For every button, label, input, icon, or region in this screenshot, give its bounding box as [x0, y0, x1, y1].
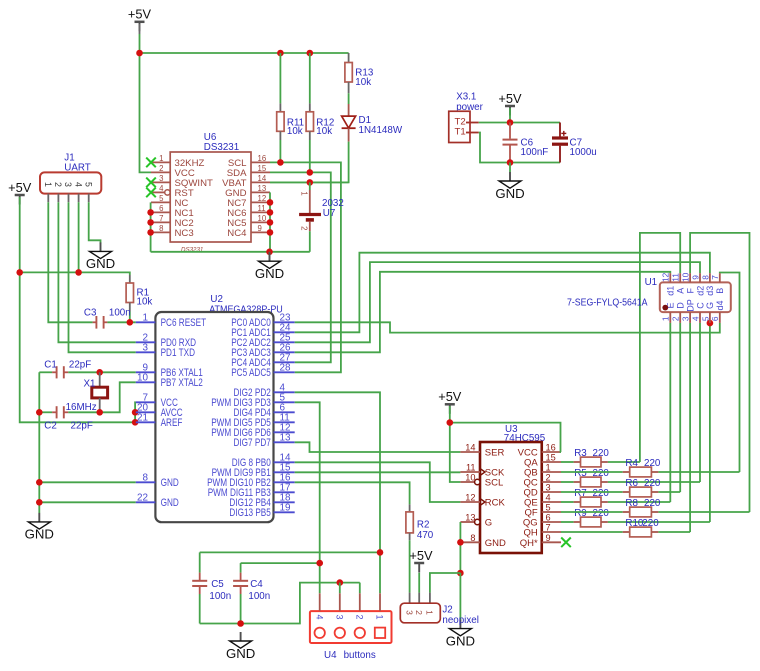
wire R2 to J2 pin3: [409, 540, 411, 592]
svg-text:3: 3: [143, 343, 149, 354]
junction X1 bottom: [96, 409, 103, 416]
svg-text:C1: C1: [44, 360, 57, 371]
svg-text:+5V: +5V: [128, 7, 152, 22]
resistor R9 220: [561, 521, 574, 523]
no-connect X pin4: [146, 188, 156, 198]
U2 pin 23 PC0 ADC0: [274, 321, 295, 323]
junction row A: [377, 549, 384, 556]
+5V supply symbol (top main rail): [128, 7, 152, 32]
wire PC2 to 7seg d2 (U1 pin9): [295, 262, 700, 342]
svg-text:220: 220: [593, 468, 610, 479]
crystal X1 16MHz: [99, 372, 101, 387]
U6 pin 16 SCL: [251, 161, 270, 163]
junction NC6: [267, 209, 274, 216]
wire U6 ground rail: [151, 251, 310, 253]
U6 pin 8 NC3: [151, 231, 170, 233]
wire R3 output: [608, 461, 640, 463]
resistor R6 220: [561, 491, 623, 493]
wire PB1 to 595 SCK: [295, 471, 461, 473]
U4 pin 4: [319, 593, 321, 611]
resistor R10 220: [561, 531, 623, 533]
U6 pin 1 32KHZ: [151, 161, 170, 163]
wire segment A: R3 to U1 pin11: [640, 233, 680, 462]
svg-text:1: 1: [546, 463, 551, 473]
U6 pin 15 SDA: [251, 171, 270, 173]
svg-text:10: 10: [137, 373, 148, 384]
U2 pin 14 DIG 8 PB0: [274, 461, 295, 463]
svg-text:1N4148W: 1N4148W: [359, 125, 403, 136]
wire segment F: R8 to U1 pin10: [690, 233, 749, 512]
U2 pin 2 PD0 RXD: [136, 341, 156, 343]
svg-text:d3: d3: [705, 286, 715, 296]
resistor R13 10k: [348, 53, 350, 63]
wire PD3 to buttons row B: [295, 402, 320, 593]
svg-text:5: 5: [546, 503, 551, 513]
svg-text:9: 9: [690, 275, 700, 280]
svg-text:11: 11: [258, 204, 266, 213]
junction NC2: [147, 219, 154, 226]
svg-text:3: 3: [546, 483, 551, 493]
wire R10 output: [658, 531, 690, 533]
wire R11 bottom to SCL: [279, 140, 281, 162]
junction +5V U3: [447, 419, 454, 426]
svg-text:PC5 ADC5: PC5 ADC5: [231, 367, 271, 379]
U1 pin1 marker: [662, 305, 668, 311]
connector U4 buttons: [310, 611, 392, 643]
U6 pin 13 GND: [251, 191, 270, 193]
svg-text:1: 1: [143, 313, 149, 324]
svg-text:C5: C5: [211, 579, 224, 590]
svg-text:X1: X1: [84, 378, 96, 389]
svg-text:220: 220: [644, 498, 661, 509]
U3 pin 3 QD: [542, 491, 561, 493]
wire R12 top: [309, 53, 311, 103]
+5V supply symbol (U3): [438, 389, 462, 414]
junction J1 pin4: [75, 269, 82, 276]
wire C3 to U2 pin1: [107, 321, 135, 323]
svg-text:R2: R2: [417, 519, 430, 530]
junction AVCC: [132, 409, 139, 416]
junction U1 pin5: [707, 320, 714, 327]
wire GND to U2 pin8: [39, 481, 136, 483]
+5V supply symbol (J1 area): [8, 180, 32, 205]
svg-text:GND: GND: [255, 266, 284, 281]
junction SDA/R12: [307, 169, 314, 176]
junction GND to J2: [457, 570, 464, 577]
U2 pin 9 PB6 XTAL1: [136, 371, 156, 373]
U6 pin 2 VCC: [151, 171, 170, 173]
U2 pin 27 PC4 ADC4: [274, 361, 295, 363]
svg-text:DP: DP: [685, 299, 695, 312]
svg-text:1: 1: [375, 614, 385, 619]
svg-text:28: 28: [280, 363, 291, 374]
svg-text:D: D: [676, 302, 686, 309]
U6 pin 6 NC1: [151, 211, 170, 213]
wire +5V to R1: [20, 272, 130, 275]
junction +5V left: [16, 269, 23, 276]
junction GND pin8: [36, 479, 43, 486]
wire R11 top: [279, 53, 281, 103]
wire 595 G to GND: [459, 522, 461, 573]
svg-text:PD1 TXD: PD1 TXD: [161, 347, 196, 359]
resistor R7 220: [561, 501, 574, 503]
U1 pin 8 d3: [709, 273, 711, 282]
svg-text:6: 6: [546, 513, 551, 523]
svg-text:14: 14: [258, 174, 267, 183]
wire R9 output: [608, 521, 710, 523]
capacitor C5 100n: [199, 552, 201, 572]
U2 pin 4 DIG2 PD2: [274, 391, 295, 393]
wire +5V stub: [139, 24, 141, 34]
U6 pin 5 NC: [151, 201, 170, 203]
+5V supply symbol (J2): [409, 548, 433, 573]
junction +5V rail at R11: [277, 50, 284, 57]
svg-text:U4: U4: [324, 650, 337, 661]
diode D1 1N4148W: [348, 104, 350, 116]
capacitor C1 22pF: [39, 371, 52, 373]
ground symbol (crystal area): [25, 513, 54, 542]
svg-text:15: 15: [546, 453, 556, 463]
U3 pin 5 QF: [542, 511, 561, 513]
svg-text:22pF: 22pF: [71, 420, 93, 431]
svg-text:3: 3: [404, 610, 414, 615]
svg-text:F: F: [685, 288, 695, 294]
svg-text:2: 2: [355, 614, 365, 619]
svg-text:100n: 100n: [109, 308, 131, 319]
svg-text:1: 1: [661, 316, 671, 321]
wire U6 GND/NC4-7 vertical: [269, 192, 271, 251]
U3 pin 16 VCC: [542, 451, 561, 453]
svg-text:1: 1: [299, 191, 308, 195]
svg-text:220: 220: [644, 458, 661, 469]
svg-text:470: 470: [417, 530, 434, 541]
svg-text:12: 12: [258, 194, 267, 203]
resistor R3 220: [561, 461, 574, 463]
no-connect X QH*: [561, 538, 571, 548]
svg-text:3: 3: [63, 182, 73, 187]
junction SCL/R11: [277, 159, 284, 166]
wire C1 to XTAL1: [68, 371, 136, 373]
wire C2/X1 to XTAL2: [68, 382, 136, 412]
svg-text:15: 15: [258, 164, 267, 173]
junction C4 bottom: [237, 620, 244, 627]
U2 pin 7 VCC: [136, 401, 156, 403]
svg-text:T1: T1: [455, 127, 466, 138]
svg-text:10k: 10k: [287, 126, 303, 137]
svg-text:+5V: +5V: [438, 389, 462, 404]
wire J1 pin4 to +5V: [78, 202, 80, 272]
wire +5V left vertical: [19, 197, 21, 272]
svg-text:R3: R3: [574, 448, 587, 459]
wire GND to J2 pin1: [430, 573, 461, 593]
wire R12 bottom to SDA: [309, 140, 311, 172]
connector J2 neopixel: [409, 593, 411, 604]
svg-text:R10: R10: [625, 518, 644, 529]
U1 pin 6 d4: [719, 312, 721, 323]
svg-text:+5V: +5V: [498, 91, 522, 106]
svg-text:neopixel: neopixel: [442, 615, 479, 626]
U1 pin 4 C: [699, 312, 701, 323]
wire J1 pin3 to U2 TXD: [69, 202, 136, 352]
svg-text:16MHz: 16MHz: [66, 402, 97, 413]
svg-text:7: 7: [546, 523, 551, 533]
svg-text:14: 14: [465, 443, 475, 453]
wire J1 pin2 to U2 RXD: [58, 202, 135, 342]
U3 pin 8 GND: [460, 541, 480, 543]
junction 595 GND pin: [457, 539, 464, 546]
wire SDA net to U2 pin 27: [270, 172, 331, 362]
svg-text:X3.1: X3.1: [456, 92, 476, 103]
junction C2/GND: [36, 409, 43, 416]
junction NC1: [147, 209, 154, 216]
svg-text:B: B: [715, 288, 725, 294]
junction RESET node: [127, 319, 134, 326]
U3 pin 1 QB: [542, 471, 561, 473]
U2 pin 28 PC5 ADC5: [274, 371, 295, 373]
U1 pin 3 DP: [689, 312, 691, 323]
U1 pin 12 d1: [669, 273, 671, 282]
svg-text:DIG7 PD7: DIG7 PD7: [234, 437, 271, 449]
junction +5V rail left: [136, 50, 143, 57]
svg-text:2: 2: [546, 473, 551, 483]
svg-text:G: G: [485, 518, 492, 529]
wire button row A (PD2/C5/U4 pin1): [200, 551, 380, 553]
resistor R5 220: [561, 481, 574, 483]
svg-text:13: 13: [258, 184, 267, 193]
wire PB0 to 595 RCK: [295, 462, 461, 502]
svg-text:220: 220: [593, 488, 610, 499]
U3 pin 10 SCL: [460, 481, 474, 483]
svg-text:10k: 10k: [137, 297, 153, 308]
junction NC7: [267, 199, 274, 206]
U4 pin 1: [379, 593, 381, 611]
wire R5 output: [608, 481, 700, 483]
wire segment DP: R10 to U1 pin3: [689, 323, 691, 532]
svg-text:d4: d4: [715, 300, 725, 310]
wire R8 output: [658, 511, 749, 513]
svg-text:GND: GND: [226, 646, 255, 661]
battery U7 2032: [309, 182, 311, 190]
U6 pin 12 NC7: [251, 201, 270, 203]
svg-text:220: 220: [642, 518, 659, 529]
svg-text:GND: GND: [161, 477, 179, 489]
junction +5V/C6 top: [507, 119, 514, 126]
svg-text:U7: U7: [323, 208, 336, 219]
junction VBAT/battery: [307, 179, 314, 186]
ground symbol (power section): [509, 163, 511, 173]
U3 pin 6 QG: [542, 521, 561, 523]
U2 pin 3 PD1 TXD: [136, 351, 156, 353]
svg-text:22pF: 22pF: [69, 360, 91, 371]
wire R1 bottom to RESET: [129, 312, 131, 323]
ground symbol (U6): [269, 252, 271, 261]
junction NC4: [267, 229, 274, 236]
resistor R8 220: [561, 511, 623, 513]
U3 pin 2 QC: [542, 481, 561, 483]
svg-text:PB7 XTAL2: PB7 XTAL2: [161, 377, 203, 389]
svg-text:7: 7: [710, 275, 720, 280]
svg-text:100nF: 100nF: [521, 147, 549, 158]
svg-text:QH*: QH*: [520, 538, 538, 549]
wire R7 output: [608, 501, 670, 503]
svg-text:6: 6: [710, 316, 720, 321]
ground symbol (J1): [86, 242, 115, 271]
U6 pin 7 NC2: [151, 221, 170, 223]
U2 pin 18 DIG12 PB4: [274, 501, 295, 503]
svg-text:GND: GND: [25, 527, 54, 542]
U3 pin 14 SER: [460, 451, 480, 453]
junction row B: [316, 560, 323, 567]
svg-text:d2: d2: [695, 286, 705, 296]
wire segment D: R6 to U1 pin2: [679, 323, 681, 492]
U3 pin 4 QE: [542, 501, 561, 503]
svg-text:13: 13: [465, 513, 475, 523]
svg-text:9: 9: [258, 224, 262, 233]
wire U6 NC pins 5-8 tie: [150, 202, 152, 251]
svg-text:22: 22: [137, 493, 148, 504]
svg-text:d1: d1: [666, 286, 676, 296]
wire PC3 to 7seg d1 (U1 pin12): [295, 272, 671, 353]
junction U4 pin3: [337, 579, 344, 586]
capacitor C7 1000u polarized: [559, 123, 561, 137]
capacitor C6 100nF: [509, 123, 511, 139]
svg-text:AREF: AREF: [161, 417, 183, 429]
svg-text:16: 16: [258, 154, 267, 163]
wire +5V to J2 pin2: [418, 573, 420, 593]
U2 pin 24 PC1 ADC1: [274, 331, 295, 333]
junction NC5: [267, 219, 274, 226]
svg-text:GND: GND: [485, 538, 506, 549]
U6 pin 4 RST: [151, 191, 165, 193]
wire button row B (PD3/C4/U4 pin4): [241, 562, 320, 564]
svg-text:220: 220: [593, 508, 610, 519]
U1 pin 2 D: [679, 312, 681, 323]
wire PD7 to 595 SER: [295, 442, 461, 452]
wire PC1 to 7seg d3 (U1 pin8): [295, 253, 710, 333]
wire left GND vertical: [38, 372, 40, 513]
U2 pin 8 GND: [136, 481, 156, 483]
svg-text:G: G: [705, 302, 715, 309]
svg-text:4: 4: [690, 316, 700, 321]
U6 pin 11 NC6: [251, 211, 270, 213]
wire VBAT net: [270, 181, 349, 183]
U2 pin 22 GND: [136, 501, 156, 503]
U2 pin 10 PB7 XTAL2: [136, 381, 156, 383]
wire segment C: R5 to U1 pin4: [699, 323, 701, 482]
U2 pin 15 PWM DIG9 PB1: [274, 471, 295, 473]
U1 pin 11 A: [679, 273, 681, 282]
junction NC3: [147, 229, 154, 236]
svg-text:7: 7: [159, 214, 163, 223]
U2 pin 21 AREF: [136, 421, 156, 423]
U1 pin 7 B: [719, 273, 721, 282]
svg-text:19: 19: [280, 503, 291, 514]
wire VCC/AVCC/AREF tie: [134, 402, 137, 422]
U2 pin 6 DIG4 PD4: [274, 411, 295, 413]
svg-text:U1: U1: [645, 277, 658, 288]
wire PD2 to buttons row A: [295, 392, 380, 593]
wire +5V to 595 VCC: [450, 423, 561, 452]
U3 pin 13 G: [460, 521, 474, 523]
svg-text:12: 12: [661, 272, 671, 282]
U1 pin 5 G: [709, 312, 711, 323]
resistor R2 470: [409, 504, 411, 512]
svg-text:R4: R4: [625, 458, 638, 469]
U2 pin 5 PWM DIG3 PD3: [274, 401, 295, 403]
svg-text:4: 4: [314, 614, 324, 619]
U3 pin 7 QH: [542, 531, 561, 533]
svg-text:6: 6: [159, 204, 163, 213]
wire segment E: R7 to U1 pin1: [669, 323, 671, 502]
wire R6 output: [658, 491, 680, 493]
svg-text:1: 1: [43, 182, 53, 187]
svg-text:R7: R7: [574, 488, 587, 499]
wire segment B: R4 to U1 pin7: [720, 273, 740, 473]
wire R13 to D1: [348, 93, 350, 104]
svg-text:DIG13 PB5: DIG13 PB5: [229, 507, 270, 519]
wire segment G: R9 to U1 pin5: [709, 323, 711, 522]
wire +5V top rail horizontal: [140, 52, 349, 54]
svg-text:A: A: [676, 288, 686, 294]
svg-text:GND: GND: [446, 633, 475, 648]
svg-text:C2: C2: [44, 420, 57, 431]
svg-text:SER: SER: [485, 448, 505, 459]
svg-text:220: 220: [644, 478, 661, 489]
U2 pin 13 DIG7 PD7: [274, 441, 295, 443]
svg-text:220: 220: [593, 448, 610, 459]
svg-text:1000u: 1000u: [570, 147, 597, 158]
svg-text:7-SEG-FYLQ-5641A: 7-SEG-FYLQ-5641A: [567, 297, 648, 308]
svg-text:4: 4: [159, 184, 164, 193]
resistor R11 10k: [277, 112, 284, 132]
svg-text:5: 5: [159, 194, 164, 203]
svg-text:3: 3: [159, 174, 163, 183]
U3 pin 9 QH*: [542, 541, 561, 543]
svg-text:10k: 10k: [355, 77, 371, 88]
U4 pin 3: [339, 583, 341, 594]
svg-text:8: 8: [159, 224, 163, 233]
svg-text:2: 2: [299, 226, 308, 230]
no-connect X pin1: [146, 158, 156, 168]
svg-text:10: 10: [465, 473, 475, 483]
U2 pin 1 PC6 RESET: [136, 321, 156, 323]
junction GND pin22: [36, 499, 43, 506]
svg-text:2: 2: [671, 316, 681, 321]
wire bottom ground rail: [200, 583, 360, 624]
U2 pin 25 PC2 ADC2: [274, 341, 295, 343]
pin T1 stub: [466, 132, 479, 134]
wire +5V stub down: [509, 108, 511, 123]
pin T2 stub: [466, 122, 479, 124]
svg-text:3: 3: [335, 614, 345, 619]
U2 pin 19 DIG13 PB5: [274, 511, 295, 513]
svg-text:U2: U2: [210, 294, 223, 305]
wire PC0 to 7seg d4 (U1 pin6): [295, 322, 720, 332]
svg-text:21: 21: [137, 413, 148, 424]
U2 pin 20 AVCC: [136, 411, 156, 413]
svg-text:5: 5: [700, 316, 710, 321]
svg-text:PC6 RESET: PC6 RESET: [161, 317, 207, 329]
+5V supply symbol (power section): [498, 91, 522, 116]
svg-text:R9: R9: [574, 508, 587, 519]
wire GND to U2 pin22: [39, 501, 136, 503]
wire PB2 to R2: [295, 482, 410, 504]
wire D1 cathode to VBAT: [270, 142, 349, 183]
svg-text:buttons: buttons: [344, 650, 376, 661]
wire SCL net to U2 pin 28: [270, 162, 341, 372]
junction ground rail: [266, 249, 273, 256]
wire +5V to 595 SCL(SRCLR): [450, 423, 461, 482]
